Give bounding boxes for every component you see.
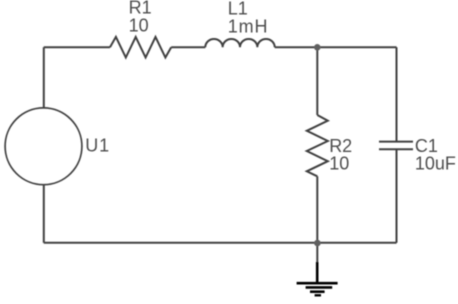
wire L1 to top-right corner: [275, 46, 397, 48]
wire top-left horizontal: [44, 46, 110, 48]
resistor R1: [110, 37, 171, 58]
wire left vertical lower: [43, 185, 45, 243]
wire R1 to L1: [171, 46, 205, 48]
wire right vertical lower: [396, 149, 398, 243]
svg-text:1mH: 1mH: [228, 17, 269, 37]
wire R2 branch upper: [316, 47, 318, 115]
node dot top junction: [314, 44, 321, 51]
wire bottom horizontal: [44, 242, 397, 244]
svg-text:U1: U1: [85, 135, 110, 155]
voltage source U1: [5, 108, 82, 185]
svg-text:10: 10: [129, 16, 149, 36]
capacitor C1 top plate: [379, 141, 413, 143]
wire left vertical upper: [43, 47, 45, 108]
ground: [297, 262, 338, 295]
svg-text:10uF: 10uF: [415, 154, 456, 174]
capacitor C1 bottom plate: [379, 148, 413, 150]
wire right vertical upper (to C1 top plate): [396, 47, 398, 141]
wire ground lead gray: [316, 243, 318, 264]
inductor L1: [205, 39, 274, 47]
node dot bottom junction: [314, 240, 321, 247]
svg-text:10: 10: [329, 154, 349, 174]
wire R2 branch lower: [316, 176, 318, 243]
resistor R2: [307, 115, 328, 176]
